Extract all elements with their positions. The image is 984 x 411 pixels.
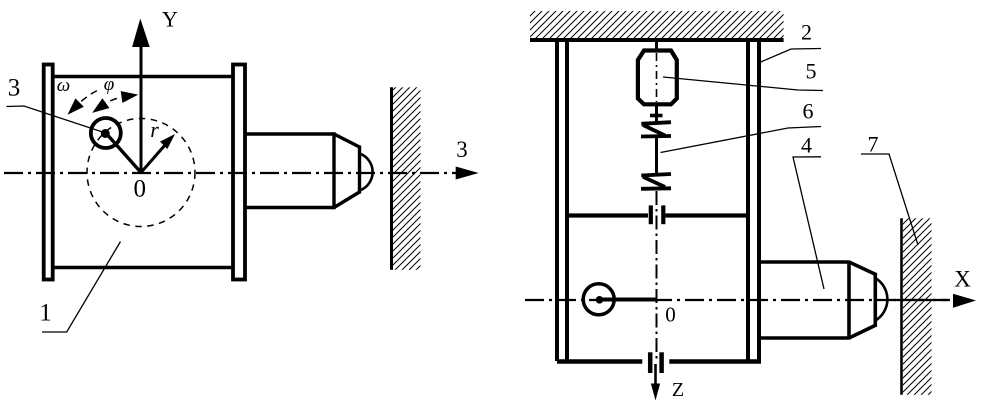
crank circle (right) bbox=[583, 284, 614, 315]
left wall inner bbox=[565, 42, 569, 361]
svg-text:1: 1 bbox=[39, 300, 52, 327]
plunger ball tip right bbox=[875, 278, 887, 321]
svg-text:3: 3 bbox=[456, 137, 468, 162]
svg-text:5: 5 bbox=[806, 59, 817, 84]
leader 2 bbox=[760, 49, 822, 63]
wire: X axis solid across wall bbox=[893, 299, 948, 301]
phi arrowhead left bbox=[92, 98, 109, 113]
wall 7 hatch bbox=[903, 218, 932, 394]
pin center dot bbox=[101, 129, 110, 138]
divider piston bars bbox=[649, 205, 653, 224]
plunger cylinder left bbox=[246, 132, 360, 209]
divider line bbox=[567, 213, 648, 217]
svg-text:Z: Z bbox=[672, 379, 684, 401]
leader 5 bbox=[663, 77, 823, 91]
crank link bbox=[106, 133, 141, 173]
X axis arrowhead bbox=[953, 294, 976, 308]
wall (left figure) hatch bbox=[393, 87, 421, 269]
omega arrowhead bbox=[68, 98, 84, 114]
leader line 3 (top left) bbox=[6, 106, 104, 133]
leader line 1 bbox=[42, 242, 121, 333]
crank link (right) bbox=[600, 298, 657, 302]
wire: horizontal centerline axis bbox=[4, 172, 456, 174]
phi arrowhead right bbox=[121, 91, 139, 103]
ceiling hatch bbox=[530, 11, 784, 38]
mass block 5 bbox=[638, 51, 677, 105]
svg-text:7: 7 bbox=[868, 132, 879, 157]
right wall inner bbox=[746, 42, 750, 361]
wall 7 edge bbox=[900, 218, 903, 394]
wall (left figure) edge bbox=[390, 87, 393, 269]
mass centerline bbox=[656, 53, 658, 102]
pin circle 3 bbox=[91, 118, 121, 148]
Y axis bbox=[140, 47, 143, 173]
svg-text:0: 0 bbox=[134, 176, 147, 203]
body 1 bottom edge bbox=[53, 266, 234, 270]
rod between springs bbox=[655, 138, 658, 173]
flange left bbox=[44, 65, 53, 280]
flange right bbox=[233, 65, 245, 280]
phi arc dashed bbox=[100, 96, 129, 107]
dashed circle (crank path) bbox=[87, 119, 195, 227]
hanger rod bbox=[655, 40, 658, 49]
svg-text:4: 4 bbox=[801, 133, 812, 158]
svg-text:3: 3 bbox=[8, 75, 21, 102]
plunger ball tip left bbox=[360, 154, 373, 191]
X axis dash-dot bbox=[525, 299, 950, 301]
left wall outer bbox=[555, 42, 559, 361]
omega arc dashed bbox=[81, 90, 97, 101]
spring 6 lower bbox=[641, 174, 671, 189]
ceiling line bbox=[530, 38, 784, 42]
leader 6 bbox=[661, 127, 822, 153]
right wall outer 2 bbox=[757, 42, 761, 361]
r arrow bbox=[141, 139, 170, 172]
T crossbar bbox=[650, 114, 663, 118]
svg-text:6: 6 bbox=[803, 99, 814, 124]
leader 4 bbox=[793, 157, 824, 289]
Z arrowhead bbox=[651, 384, 660, 401]
svg-text:0: 0 bbox=[665, 303, 676, 327]
Y axis arrowhead bbox=[132, 19, 150, 48]
svg-text:X: X bbox=[954, 267, 971, 292]
spring 6 upper bbox=[641, 122, 671, 136]
leader 7 bbox=[861, 154, 918, 245]
bottom piston bars bbox=[648, 352, 653, 373]
rod below mass bbox=[655, 104, 658, 121]
svg-text:2: 2 bbox=[801, 20, 812, 45]
svg-text:ω: ω bbox=[57, 75, 70, 96]
svg-text:r: r bbox=[150, 117, 159, 142]
vertical centerline Z bbox=[656, 191, 658, 360]
bottom line bbox=[557, 359, 642, 364]
crank dot bbox=[596, 296, 604, 304]
Z axis line bbox=[654, 364, 657, 384]
plunger cylinder 4 bbox=[759, 261, 875, 340]
body 1 top edge bbox=[53, 75, 234, 79]
node: axis arrowhead right bbox=[456, 167, 479, 180]
svg-text:φ: φ bbox=[104, 74, 115, 95]
svg-text:Y: Y bbox=[162, 7, 178, 32]
